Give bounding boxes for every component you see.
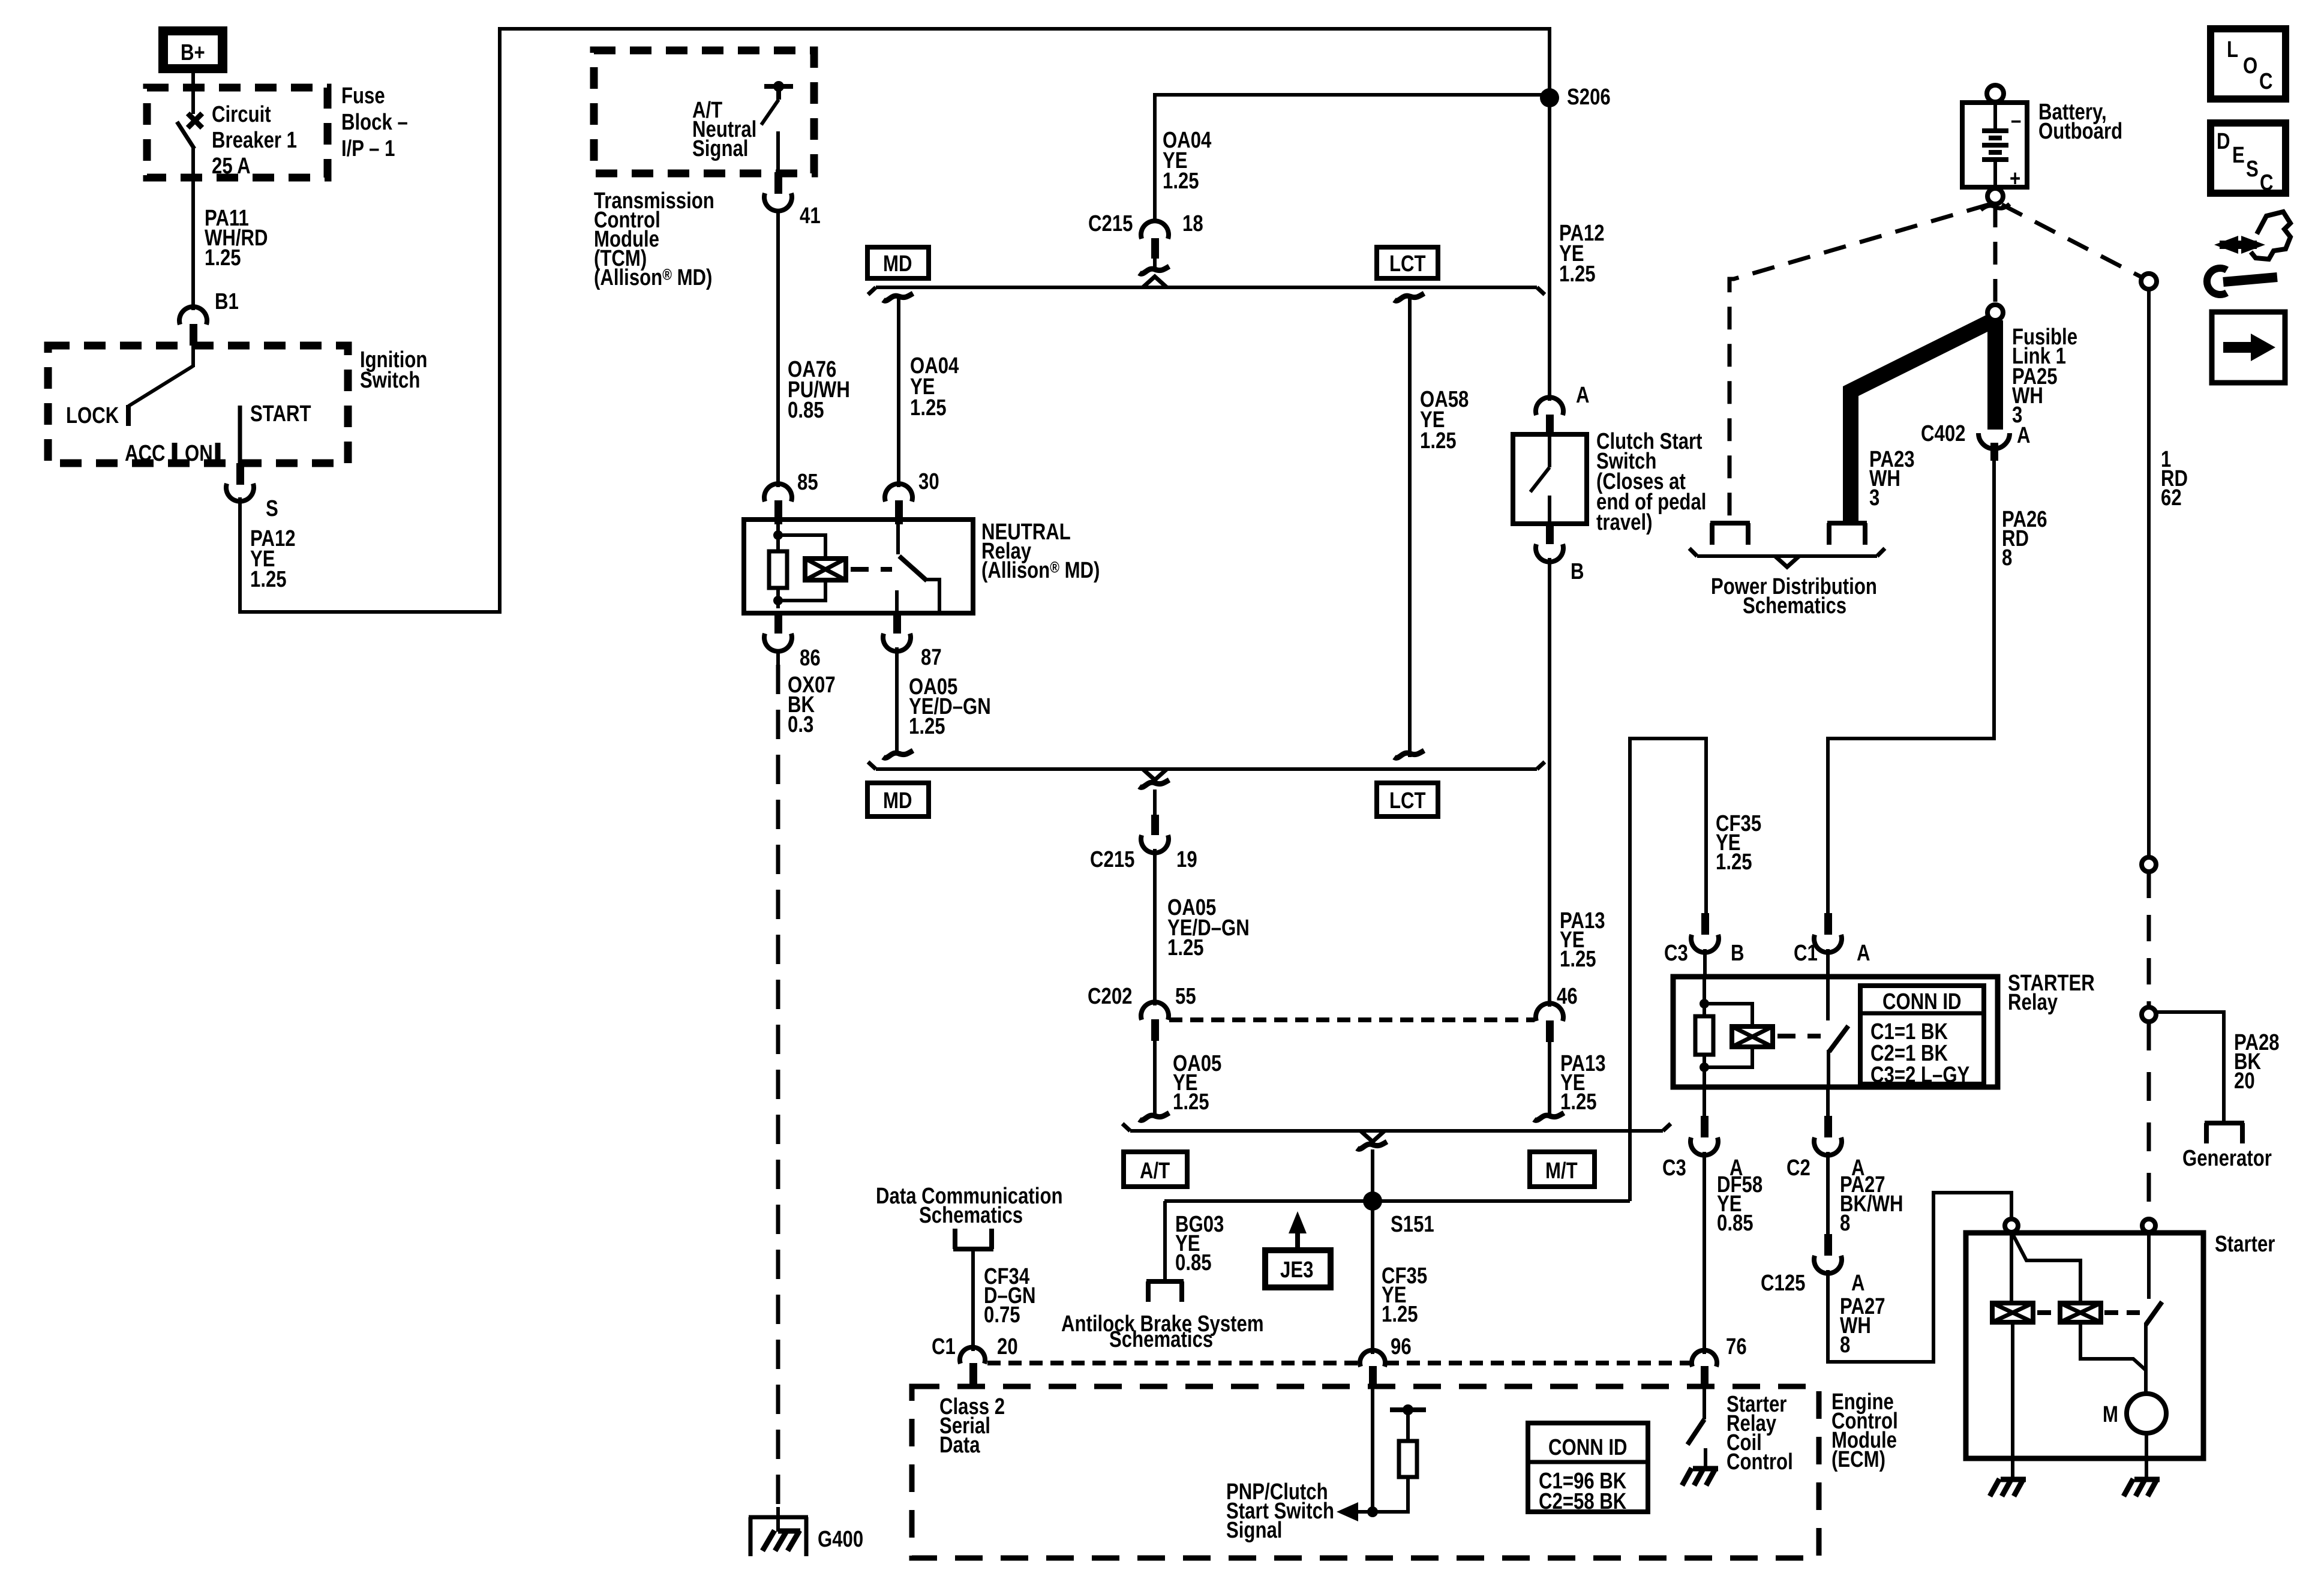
starter terminal circle battery: [2142, 1219, 2155, 1232]
svg-text:G400: G400: [818, 1527, 863, 1552]
wire S151 horizontal: [1164, 1199, 1630, 1203]
M/T tag box: [1530, 1152, 1595, 1187]
battery splice marks: [1981, 204, 2010, 210]
svg-text:1.25: 1.25: [1420, 428, 1457, 454]
curl under bracket at pin30 wire: [883, 293, 913, 301]
wire OA05 55 to A/T bracket: [1153, 1041, 1157, 1115]
starter solenoid feed wires: [2011, 1232, 2080, 1303]
svg-text:C2: C2: [1786, 1155, 1810, 1181]
wire OA58 upper to lower bracket: [1408, 298, 1412, 757]
label: OA05 YE 1.25 (lower): [1173, 1051, 1221, 1115]
neutral relay coil: [769, 524, 825, 608]
label: A/T Neutral Signal: [692, 98, 756, 161]
STARTER relay box: [1673, 977, 1998, 1087]
inline connector C1 pin 20: [932, 1334, 1018, 1385]
wire motor to ground: [2145, 1433, 2148, 1479]
starter main contacts: [2146, 1232, 2162, 1370]
label: CF35 YE 1.25 (right): [1716, 811, 1761, 875]
svg-text:START: START: [250, 401, 311, 427]
label: Transmission Control Module (TCM) (Allison MD): [594, 188, 714, 290]
svg-text:C1: C1: [932, 1334, 956, 1359]
svg-text:JE3: JE3: [1280, 1257, 1313, 1283]
ECM switch ground: [1682, 1448, 1718, 1485]
label: Clutch Start Switch (Closes at end of pedal travel): [1596, 429, 1706, 535]
icon forward arrow box: [2212, 312, 2285, 383]
svg-text:LOCK: LOCK: [66, 403, 119, 428]
svg-text:Fuse: Fuse: [341, 83, 385, 109]
label: NEUTRAL Relay (Allison MD): [981, 520, 1100, 583]
svg-text:8: 8: [1840, 1332, 1850, 1358]
inline connector C215 pin 18: [1088, 211, 1203, 274]
dashed battery to 1RD62: [2002, 205, 2142, 277]
MD tag box (lower): [867, 783, 929, 816]
wire PA13 46 to A/T bracket: [1548, 1042, 1551, 1115]
icon DESC box: [2211, 123, 2286, 196]
svg-text:1.25: 1.25: [1716, 849, 1752, 875]
svg-text:(ECM): (ECM): [1831, 1447, 1885, 1472]
JE3 tag box: [1265, 1250, 1331, 1287]
starter solenoid dashed links: [2037, 1310, 2140, 1315]
svg-text:C402: C402: [1921, 421, 1965, 446]
svg-text:O: O: [2243, 53, 2257, 79]
curl above lower bracket at OA58 wire: [1394, 751, 1424, 758]
label: OA04 YE 1.25 (left): [910, 353, 959, 421]
label: BG03 YE 0.85: [1175, 1212, 1224, 1275]
svg-text:Relay: Relay: [2008, 990, 2058, 1015]
starter box: [1966, 1233, 2203, 1458]
svg-text:0.3: 0.3: [788, 712, 813, 737]
wire 1 RD 62: [2141, 274, 2157, 1022]
upper bracket chevron: [1143, 277, 1167, 287]
svg-text:LCT: LCT: [1389, 788, 1426, 813]
ground G400: [749, 1507, 863, 1556]
fusible link node circle: [1987, 305, 2003, 320]
svg-text:3: 3: [1869, 485, 1879, 511]
label: OA58 YE 1.25: [1420, 387, 1469, 454]
svg-text:Outboard: Outboard: [2038, 119, 2122, 144]
ground starter motor: [2124, 1479, 2160, 1496]
svg-text:87: 87: [921, 645, 942, 670]
inline connector C215 pin 19: [1090, 780, 1197, 872]
label: Class 2 Serial Data: [939, 1394, 1005, 1458]
CONN ID table (ECM): [1528, 1423, 1648, 1514]
svg-text:85: 85: [797, 470, 818, 495]
label: PA26 RD 8: [2002, 507, 2047, 571]
A/T M/T bracket: [1122, 1124, 1671, 1131]
label: OA76 PU/WH 0.85: [788, 357, 850, 423]
ignition switch dashed box: [48, 346, 348, 463]
svg-text:CONN ID: CONN ID: [1548, 1435, 1628, 1460]
label: Engine Control Module (ECM): [1831, 1389, 1898, 1472]
wire PA11 breaker to B1: [191, 147, 195, 310]
svg-text:B: B: [1731, 941, 1744, 966]
upper bracket MD-LCT: [868, 287, 1545, 295]
svg-text:–: –: [2011, 108, 2021, 133]
svg-text:C3: C3: [1662, 1155, 1686, 1181]
svg-text:E: E: [2232, 143, 2245, 168]
svg-text:Control: Control: [1727, 1449, 1793, 1475]
svg-text:55: 55: [1175, 984, 1196, 1009]
inline connector C125 pin A: [1761, 1234, 1865, 1296]
clutch switch contacts: [1530, 434, 1550, 524]
wire OX07 dashed to G400: [776, 651, 780, 1507]
svg-text:B1: B1: [215, 289, 239, 314]
clutch start switch box: [1513, 434, 1587, 524]
svg-text:+: +: [2010, 166, 2020, 191]
B+ terminal: [158, 26, 227, 73]
connector pin 85: [764, 470, 818, 524]
wire OA76 pin41 to relay pin 85: [776, 211, 780, 487]
svg-text:1.25: 1.25: [1167, 935, 1204, 960]
svg-text:0.85: 0.85: [788, 398, 824, 423]
wire CF35 S151 to 96: [1371, 1201, 1374, 1354]
connector S: [226, 463, 278, 521]
label: DF58 YE 0.85: [1717, 1172, 1762, 1236]
CONN ID table (starter relay): [1860, 986, 1984, 1088]
connector pin 41: [764, 172, 821, 229]
wire OA04 upper bracket to pin 30: [897, 298, 900, 487]
battery outboard: [1962, 85, 2027, 204]
svg-text:B: B: [1571, 559, 1584, 584]
svg-text:0.85: 0.85: [1175, 1250, 1212, 1275]
svg-text:Block –: Block –: [341, 110, 408, 135]
svg-text:LCT: LCT: [1389, 251, 1426, 277]
starter terminal circle A: [2005, 1219, 2018, 1232]
svg-text:8: 8: [1840, 1211, 1850, 1236]
ignition switch blade LOCK: [66, 366, 193, 428]
svg-text:8: 8: [2002, 545, 2012, 571]
svg-text:20: 20: [997, 1334, 1018, 1359]
svg-text:Schematics: Schematics: [1109, 1327, 1213, 1352]
label: PNP/Clutch Start Switch Signal: [1226, 1479, 1334, 1543]
wire PA27 C2A to C125: [1826, 1152, 1830, 1235]
svg-text:Circuit: Circuit: [212, 102, 271, 127]
label: Ignition Switch: [360, 347, 427, 393]
connector C3 pin B: [1664, 913, 1744, 977]
label: PA23 WH 3: [1869, 447, 1915, 511]
MD tag box (upper): [867, 247, 929, 278]
label: PA27 WH 8: [1840, 1294, 1885, 1358]
label: OA05 YE/D-GN 1.25 (mid): [1167, 895, 1250, 960]
wire PA13 clutch B to 46: [1548, 558, 1551, 1007]
terminal to data communication schematics: [953, 1229, 993, 1249]
starter motor link wires: [2080, 1322, 2146, 1394]
wire CF35 S151 up to starter relay C3: [1630, 739, 1706, 1201]
dashed generator wire to starter: [2147, 1022, 2151, 1219]
svg-text:S151: S151: [1391, 1212, 1434, 1237]
wire PA12 ignition S to S206: [240, 29, 1550, 612]
lower bracket MD-LCT: [868, 762, 1545, 769]
label: Fusible Link 1 PA25 WH 3: [2012, 325, 2077, 428]
label: CF35 YE 1.25 (below S151): [1382, 1263, 1427, 1327]
label: Starter Relay Coil Control: [1727, 1392, 1793, 1475]
ground starter winding: [1990, 1479, 2026, 1496]
terminal to Antilock schematics: [1146, 1281, 1184, 1302]
label: PA12 YE 1.25 (left): [250, 526, 296, 592]
svg-text:1.25: 1.25: [909, 714, 945, 739]
label: STARTER Relay: [2008, 971, 2095, 1015]
svg-text:A/T: A/T: [1140, 1158, 1170, 1184]
svg-text:A: A: [1576, 383, 1590, 408]
power distribution terminals: [1710, 523, 1867, 545]
inline connector 96: [1360, 1334, 1412, 1388]
svg-text:Starter: Starter: [2215, 1232, 2275, 1257]
label: OA05 YE/D-GN 1.25 (pin87): [909, 674, 991, 739]
svg-text:1.25: 1.25: [1163, 169, 1199, 194]
svg-text:Data: Data: [939, 1433, 980, 1458]
wire bracket to S151: [1371, 1149, 1374, 1201]
svg-text:0.85: 0.85: [1717, 1211, 1753, 1236]
ignition ACC ON marks: [125, 441, 218, 466]
svg-text:1.25: 1.25: [205, 245, 241, 271]
inline connector 76: [1692, 1334, 1747, 1388]
curl below A/T bracket center: [1357, 1142, 1387, 1149]
connector pin 87: [883, 612, 942, 670]
curl above A/T bracket at 46 wire: [1534, 1113, 1564, 1120]
wire PA26 C402 to starter relay C1: [1828, 461, 1994, 914]
ignition START contact: [240, 401, 311, 464]
label: PA12 YE 1.25 (right): [1559, 221, 1605, 287]
connector pin 30: [885, 469, 939, 524]
svg-text:(Allison® MD): (Allison® MD): [594, 265, 712, 290]
label: Circuit Breaker 1 25 A: [212, 102, 297, 179]
wire 96 to PNP junction: [1371, 1386, 1374, 1512]
svg-text:(Allison® MD): (Allison® MD): [981, 558, 1100, 583]
label: Data Communication Schematics: [876, 1184, 1063, 1228]
svg-text:C3: C3: [1664, 941, 1688, 966]
svg-text:A: A: [2017, 423, 2031, 448]
wire PA12 S206 to clutch A: [1548, 98, 1551, 401]
wire DF58 C3A to 76: [1703, 1152, 1706, 1354]
A/T neutral signal switch: [761, 81, 793, 173]
wire winding1 to ground: [2011, 1322, 2014, 1479]
wire OA05 pin 87 to lower bracket: [895, 647, 899, 752]
starter relay coil X symbol: [1732, 1026, 1773, 1047]
svg-text:B+: B+: [181, 40, 205, 65]
svg-text:1.25: 1.25: [1560, 947, 1596, 972]
svg-text:S206: S206: [1567, 85, 1611, 110]
svg-text:CONN ID: CONN ID: [1882, 989, 1962, 1014]
svg-text:96: 96: [1391, 1334, 1412, 1359]
svg-text:1.25: 1.25: [250, 567, 287, 592]
fuse block dashed box: [147, 88, 328, 178]
wire corner to C215-18: [1155, 95, 1550, 223]
label: PA28 BK 20: [2234, 1030, 2280, 1094]
label: 1 RD 62: [2161, 447, 2188, 511]
svg-text:M: M: [2103, 1402, 2118, 1427]
A/T tag box: [1124, 1152, 1187, 1187]
A/T bracket chevron: [1361, 1131, 1385, 1142]
svg-text:1.25: 1.25: [1559, 262, 1596, 287]
JE3 reference arrow: [1289, 1211, 1307, 1250]
svg-text:C202: C202: [1088, 984, 1132, 1009]
LCT tag box (upper): [1377, 247, 1438, 278]
svg-text:I/P – 1: I/P – 1: [341, 136, 395, 161]
starter motor M: [2103, 1394, 2166, 1433]
starter relay switch: [1828, 977, 1848, 1087]
svg-text:76: 76: [1726, 1334, 1747, 1359]
label: Antilock Brake System Schematics: [1061, 1311, 1264, 1352]
svg-text:MD: MD: [883, 788, 912, 813]
NEUTRAL relay box: [744, 520, 973, 613]
svg-text:1.25: 1.25: [1173, 1089, 1209, 1115]
svg-text:1.25: 1.25: [1382, 1302, 1418, 1327]
label: OA04 YE 1.25 (top): [1163, 128, 1212, 194]
dashed connector line C202 55 to 46: [1169, 1017, 1535, 1022]
svg-text:Switch: Switch: [360, 368, 420, 393]
ECM starter relay coil control switch: [1688, 1386, 1704, 1445]
svg-text:ON: ON: [185, 441, 213, 466]
circuit breaker CB1: [177, 113, 202, 149]
LCT tag box (lower): [1377, 783, 1438, 816]
dashed battery to fusible link: [1993, 205, 1998, 304]
svg-text:18: 18: [1182, 211, 1203, 236]
svg-text:62: 62: [2161, 485, 2182, 511]
svg-text:Signal: Signal: [692, 136, 748, 161]
svg-text:Breaker 1: Breaker 1: [212, 128, 297, 153]
svg-text:C3=2 L–GY: C3=2 L–GY: [1870, 1062, 1969, 1088]
connector pin 86: [764, 612, 821, 671]
wire CF34: [971, 1249, 975, 1351]
inline connector 46: [1536, 984, 1578, 1042]
TCM dashed box: [594, 50, 814, 173]
svg-text:30: 30: [918, 469, 939, 494]
label: Fuse Block - I/P - 1: [341, 83, 408, 161]
svg-text:Schematics: Schematics: [1743, 593, 1846, 619]
svg-text:C: C: [2260, 170, 2274, 196]
svg-text:C2=58 BK: C2=58 BK: [1539, 1489, 1626, 1514]
label: PA27 BK/WH 8: [1840, 1172, 1903, 1236]
label: Power Distribution Schematics: [1711, 574, 1877, 619]
svg-text:46: 46: [1557, 984, 1578, 1009]
svg-text:ACC: ACC: [125, 441, 165, 466]
icon LOC box: [2211, 29, 2286, 99]
splice S206: [1540, 85, 1611, 110]
dashed battery to power distribution: [1730, 205, 1989, 522]
starter solenoid winding 2: [2060, 1303, 2101, 1322]
starter solenoid winding 1: [1992, 1303, 2033, 1322]
PNP/Clutch signal arrow: [1337, 1502, 1378, 1521]
terminal to generator: [2182, 1123, 2272, 1171]
ECM pullup resistor branch: [1373, 1404, 1426, 1512]
splice S151: [1363, 1191, 1434, 1237]
connector B1: [179, 289, 239, 367]
wire PA28 branch to generator: [2156, 1012, 2224, 1123]
svg-text:travel): travel): [1596, 510, 1652, 535]
label: Battery, Outboard: [2038, 100, 2122, 144]
svg-text:C215: C215: [1088, 211, 1133, 236]
svg-text:S: S: [266, 496, 278, 521]
ECM dashed box: [912, 1386, 1819, 1558]
icon vehicle wrench: [2207, 212, 2290, 295]
svg-text:1.25: 1.25: [1560, 1089, 1597, 1115]
neutral relay coil X symbol: [805, 559, 846, 580]
svg-text:M/T: M/T: [1545, 1158, 1578, 1184]
ECM connector dashed line C1: [987, 1361, 1690, 1365]
svg-text:20: 20: [2234, 1068, 2255, 1094]
neutral relay actuator dashed link: [851, 567, 892, 572]
svg-text:19: 19: [1176, 847, 1197, 872]
connector clutch pin B: [1536, 523, 1584, 584]
curl under bracket at OA58 wire: [1394, 293, 1424, 301]
svg-text:L: L: [2227, 37, 2238, 62]
svg-text:C125: C125: [1761, 1271, 1805, 1296]
curl above A/T bracket at 55 wire: [1139, 1113, 1169, 1120]
starter relay coil: [1695, 977, 1752, 1087]
connector C402 pin A: [1921, 421, 2031, 461]
svg-text:1.25: 1.25: [910, 395, 947, 421]
neutral relay switch: [897, 524, 939, 611]
label: OX07 BK 0.3: [788, 673, 836, 737]
wire BG03 drop: [1163, 1201, 1167, 1281]
svg-text:A: A: [1851, 1271, 1865, 1296]
svg-text:MD: MD: [883, 251, 912, 277]
svg-text:25 A: 25 A: [212, 154, 251, 179]
svg-text:41: 41: [800, 203, 821, 229]
fusible link 1 thick wire PA25/PA23: [1851, 320, 1995, 523]
inline connector C202 pin 55: [1088, 984, 1196, 1041]
wire OA05 C215-19 to C202-55: [1153, 849, 1157, 1005]
connector C1 pin A: [1794, 913, 1870, 977]
power distribution brace: [1689, 548, 1885, 567]
svg-text:C: C: [2259, 69, 2273, 94]
connector C3 pin A: [1662, 1087, 1743, 1181]
connector C2 pin A: [1786, 1087, 1865, 1181]
label: PA13 YE 1.25 (upper): [1560, 908, 1605, 972]
svg-text:C1: C1: [1794, 941, 1818, 966]
svg-text:86: 86: [800, 646, 821, 671]
wire PA27 C125 to starter: [1828, 1193, 2011, 1362]
svg-text:0.75: 0.75: [984, 1302, 1020, 1328]
svg-text:C215: C215: [1090, 847, 1134, 872]
curl above lower bracket at pin87 wire: [883, 751, 913, 758]
svg-text:Signal: Signal: [1226, 1518, 1282, 1543]
label: PA11 WH/RD 1.25: [205, 206, 268, 271]
svg-text:A: A: [1857, 941, 1870, 966]
svg-text:D: D: [2217, 129, 2230, 154]
starter relay actuator dashed link: [1777, 1034, 1821, 1038]
svg-text:Generator: Generator: [2182, 1146, 2272, 1171]
connector clutch pin A: [1536, 383, 1590, 435]
wire B+ to breaker: [191, 73, 195, 114]
svg-text:S: S: [2246, 157, 2259, 182]
label: CF34 D-GN 0.75: [984, 1264, 1036, 1328]
svg-text:Schematics: Schematics: [919, 1203, 1023, 1228]
label: PA13 YE 1.25 (lower): [1560, 1051, 1606, 1115]
lower bracket chevron: [1143, 769, 1167, 780]
